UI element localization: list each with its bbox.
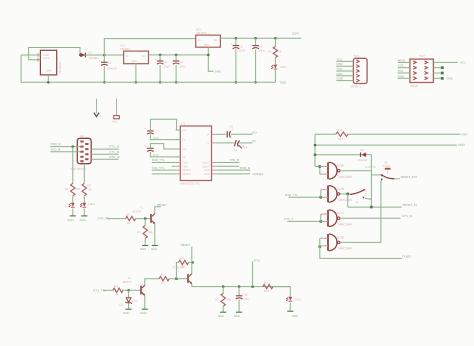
- wire to R4: [107, 218, 126, 220]
- svg-text:+: +: [231, 42, 233, 46]
- IC1 pin T1IN: [176, 162, 181, 164]
- svg-text:GND: GND: [140, 247, 146, 251]
- svg-text:CTS_IN: CTS_IN: [402, 214, 412, 218]
- wire T2 collector: [145, 279, 159, 286]
- svg-text:GND: GND: [67, 218, 73, 222]
- wire SV2 left pin 1: [398, 61, 410, 63]
- junction gate2 input: [320, 196, 323, 199]
- svg-text:R9: R9: [215, 298, 219, 302]
- wire SV2 right stub 2: [433, 67, 441, 69]
- wire LED1 to rail end: [274, 70, 276, 82]
- wire gate4 input down right: [320, 247, 402, 259]
- wire C6 to VS+ label: [231, 133, 253, 135]
- svg-text:R1OUT: R1OUT: [182, 169, 191, 172]
- wire LED4 to gnd: [289, 303, 291, 311]
- wire R2OUT: [152, 173, 176, 175]
- svg-text:R7: R7: [161, 281, 165, 285]
- ground at D3: [126, 308, 132, 310]
- junction C1 bottom: [103, 81, 106, 84]
- junction collector feedback: [191, 261, 194, 264]
- svg-text:RXD_M: RXD_M: [51, 142, 62, 146]
- svg-text:GND@1: GND@1: [252, 172, 263, 176]
- wire TXD_M to X2: [50, 151, 80, 153]
- svg-text:MA05-1: MA05-1: [350, 85, 361, 89]
- svg-text:RESET: RESET: [181, 243, 191, 247]
- wire V- out: [216, 142, 234, 144]
- wire C5 bottom to C2-: [150, 152, 180, 157]
- IC1 pin T1OUT: [212, 162, 217, 164]
- svg-text:VCC: VCC: [460, 61, 466, 65]
- node junction at C1: [103, 54, 106, 57]
- wire R6 to base: [123, 289, 140, 291]
- wire V+ out: [216, 133, 226, 135]
- SV2 left chevron 1: [413, 61, 416, 64]
- wire SV1 pin 5: [336, 80, 353, 82]
- svg-text:C7: C7: [234, 148, 238, 152]
- IC1 pin R2OUT: [176, 173, 181, 175]
- wire T1OUT: [216, 162, 239, 164]
- wire R9 to gnd: [222, 306, 224, 312]
- resistor R7: [159, 277, 169, 281]
- svg-text:D2: D2: [360, 148, 364, 152]
- svg-text:TXD_M: TXD_M: [51, 147, 61, 151]
- X2 pins left column: [80, 141, 83, 143]
- wire X2 DTR right: [91, 158, 118, 160]
- junction S1 pivot: [346, 193, 349, 196]
- svg-text:4k7: 4k7: [338, 137, 343, 141]
- svg-text:GND: GND: [123, 311, 129, 315]
- junction rail D2: [314, 153, 317, 156]
- svg-text:1N4004: 1N4004: [88, 56, 99, 60]
- transistor T3: [187, 274, 189, 283]
- svg-text:GND: GND: [151, 247, 157, 251]
- svg-text:T2OUT: T2OUT: [201, 165, 210, 168]
- zener diode D3: [126, 298, 131, 303]
- wire SV1 pin 4: [336, 75, 353, 77]
- node junction C2 top: [159, 54, 162, 57]
- wire feedback riser: [176, 262, 178, 278]
- svg-text:GND: GND: [46, 70, 52, 73]
- wire R1IN: [216, 169, 250, 171]
- resistor R3: [82, 183, 86, 195]
- SV1 pin 2 chevron: [356, 65, 359, 68]
- wire T1IN: [152, 162, 176, 164]
- RS232 driver IC1: [180, 126, 211, 181]
- ground at T2: [142, 308, 148, 310]
- tap square 4: [441, 77, 444, 80]
- wire RXD_M to X2: [50, 146, 80, 148]
- svg-text:R1: R1: [268, 49, 272, 53]
- svg-text:R4: R4: [127, 221, 131, 225]
- wire to R6: [103, 289, 113, 291]
- SV2 left chevron 3: [413, 72, 416, 75]
- wire to IC3 input: [104, 54, 123, 56]
- SV2 left chevron 4: [413, 77, 416, 80]
- wire SV1 pin 1: [336, 60, 353, 62]
- SV2 right chevron 4: [425, 77, 428, 80]
- svg-text:VI: VI: [126, 55, 129, 58]
- svg-text:+: +: [145, 126, 147, 130]
- switch S2: [385, 168, 391, 170]
- svg-text:10k: 10k: [148, 230, 153, 234]
- pin header SV1: [353, 58, 367, 83]
- wire IC4 output rail: [220, 37, 301, 39]
- wire S2 to net label: [394, 178, 400, 180]
- wire SV2 left pin 2: [398, 67, 410, 69]
- wire T1 collector: [155, 207, 161, 214]
- node junction R1 top: [274, 37, 277, 40]
- IC1 pin V+: [212, 133, 217, 135]
- test pad TP2: [116, 99, 118, 116]
- svg-text:RTS_M: RTS_M: [109, 145, 119, 149]
- wire D1 to node: [85, 54, 104, 56]
- svg-text:SCK: SCK: [398, 64, 404, 68]
- junction C9 bottom: [254, 81, 257, 84]
- capacitor C6 series: [226, 131, 228, 137]
- capacitor C4: [147, 130, 154, 132]
- svg-text:SV2: SV2: [419, 54, 425, 58]
- svg-text:1N4148: 1N4148: [357, 158, 367, 162]
- wire gate4 input tie: [319, 238, 321, 246]
- wire LED3 to gnd: [83, 209, 85, 216]
- svg-text:R2: R2: [65, 187, 69, 191]
- svg-text:RXD_M: RXD_M: [240, 166, 251, 170]
- wire T3 collector up: [191, 247, 193, 274]
- wire to D3: [128, 290, 130, 297]
- wire RTS riser: [252, 261, 254, 286]
- svg-text:CTS_M: CTS_M: [109, 150, 119, 154]
- transistor T1: [150, 214, 152, 223]
- resistor R2: [71, 183, 75, 195]
- input rail vertical: [314, 134, 316, 166]
- capacitor C8: [235, 38, 237, 45]
- svg-text:+: +: [155, 57, 157, 61]
- svg-text:GND: GND: [80, 218, 86, 222]
- wire SV1 pin 3: [336, 70, 353, 72]
- svg-text:RST: RST: [398, 69, 404, 73]
- svg-text:+: +: [99, 59, 101, 63]
- wire S1 contact: [365, 197, 372, 200]
- IC1 pin R1IN: [212, 169, 217, 171]
- tap square 3: [441, 72, 444, 75]
- junction rail DSR: [314, 144, 317, 147]
- wire R10 to LED4: [273, 287, 290, 297]
- wire gate2 output: [340, 193, 350, 195]
- wire gate3 output: [340, 217, 401, 219]
- svg-text:GND: GND: [234, 314, 240, 318]
- svg-text:4k7: 4k7: [114, 284, 119, 288]
- X2 pins right column: [85, 143, 88, 145]
- wire T1 emitter: [154, 224, 156, 246]
- SV1 pin 4 chevron: [356, 74, 359, 77]
- svg-text:GND: GND: [337, 77, 343, 81]
- svg-text:C1-: C1-: [182, 139, 186, 142]
- ground at T1: [152, 245, 158, 247]
- svg-text:GND: GND: [446, 77, 452, 81]
- wire gate1 output: [340, 170, 371, 172]
- svg-text:C1+: C1+: [182, 129, 187, 132]
- wire lower pin jog: [29, 48, 80, 60]
- junction gate4 input: [319, 245, 322, 248]
- IC1 pin C2+: [176, 148, 181, 150]
- ground at LED2: [70, 215, 76, 217]
- svg-text:VS+: VS+: [252, 131, 258, 135]
- IC1 pin C1-: [176, 139, 181, 141]
- svg-text:T3 BC547: T3 BC547: [172, 265, 185, 269]
- wire R8 to collector line: [189, 261, 193, 263]
- svg-text:VCC: VCC: [337, 57, 343, 61]
- svg-text:LED1: LED1: [280, 65, 288, 69]
- ground at R5: [142, 245, 148, 247]
- svg-text:GND: GND: [215, 70, 221, 74]
- IC1 pin V-: [212, 142, 217, 144]
- svg-text:IC2C: IC2C: [337, 211, 345, 215]
- wire down to R2: [72, 147, 74, 184]
- svg-text:RESET: RESET: [157, 203, 167, 207]
- svg-text:10uF: 10uF: [163, 65, 170, 69]
- resistor R8: [179, 260, 189, 264]
- wire X2 CTS right: [91, 153, 118, 155]
- wire DSR row: [315, 144, 457, 146]
- svg-text:C3: C3: [179, 60, 183, 64]
- transistor T2: [140, 286, 142, 295]
- junction RTS riser: [251, 285, 254, 288]
- X1 pin marks: [36, 53, 40, 62]
- svg-text:GND: GND: [280, 81, 286, 85]
- svg-text:T1OUT: T1OUT: [201, 162, 210, 165]
- IC1 pin R2IN: [212, 173, 217, 175]
- svg-text:74HC08N: 74HC08N: [337, 222, 352, 226]
- svg-text:RXD_TTL: RXD_TTL: [285, 193, 298, 197]
- wire IC4 input riser: [104, 39, 195, 55]
- svg-text:R6: R6: [115, 293, 119, 297]
- svg-text:V-: V-: [207, 142, 210, 145]
- svg-text:74HC08N: 74HC08N: [337, 247, 352, 251]
- svg-text:DTS61: DTS61: [383, 165, 391, 168]
- junction X1 gnd: [47, 75, 49, 82]
- tap square 2: [441, 66, 444, 69]
- wire R2IN: [216, 173, 250, 175]
- diode D2: [360, 152, 362, 157]
- svg-text:C2-: C2-: [182, 156, 186, 159]
- IC1 pin T2OUT: [212, 165, 217, 167]
- IC1 pin R1OUT: [176, 169, 181, 171]
- test pad TP1: [96, 99, 98, 114]
- wire SV2 left pin 4: [398, 77, 410, 79]
- IC1 pin T2IN: [176, 165, 181, 167]
- node junction C3 top: [175, 54, 178, 57]
- capacitor C2: [159, 55, 161, 61]
- svg-text:CTS_T: CTS_T: [284, 217, 293, 221]
- svg-text:MISO: MISO: [398, 58, 406, 62]
- svg-text:R5: R5: [137, 230, 141, 234]
- IC4 ground pin wire: [208, 47, 213, 71]
- wire SV2 right stub 3: [433, 72, 441, 74]
- wire SV2 left pin 3: [398, 72, 410, 74]
- junction IC3 gnd: [135, 81, 138, 84]
- wire gate3 input tie: [320, 214, 322, 221]
- svg-text:VO: VO: [214, 39, 218, 42]
- IC1 pin C1+: [176, 129, 181, 131]
- svg-text:4k7: 4k7: [160, 273, 165, 277]
- wire C4 top to C1+: [150, 119, 180, 131]
- wire S1 down: [347, 194, 349, 207]
- resistor R5: [143, 225, 147, 238]
- resistor R11: [336, 132, 348, 136]
- junction C3 bottom: [175, 81, 178, 84]
- svg-text:GND: GND: [218, 314, 224, 318]
- svg-text:1k5: 1k5: [87, 188, 92, 192]
- resistor R4: [126, 216, 136, 220]
- svg-text:1000uF: 1000uF: [107, 67, 117, 71]
- NAND gate IC2D: [327, 234, 329, 251]
- wire T2OUT: [216, 165, 239, 167]
- NAND gate IC2B: [327, 186, 329, 203]
- wire gate2 input tie: [320, 190, 322, 198]
- svg-text:R11: R11: [337, 128, 342, 132]
- svg-text:R2IN: R2IN: [204, 173, 210, 176]
- svg-text:RXD_TTL: RXD_TTL: [152, 158, 165, 162]
- svg-text:IC1: IC1: [181, 122, 186, 126]
- svg-text:VO: VO: [142, 55, 146, 58]
- svg-text:BC547: BC547: [123, 280, 132, 284]
- svg-text:GND: GND: [204, 44, 210, 47]
- wire gate1 inputs: [320, 166, 322, 168]
- svg-text:TXLED: TXLED: [402, 254, 411, 258]
- svg-text:PAD: PAD: [112, 121, 117, 124]
- svg-text:4k7: 4k7: [126, 212, 131, 216]
- svg-text:VS-: VS-: [252, 139, 257, 143]
- pin header SV2: [410, 59, 434, 82]
- svg-text:10uF: 10uF: [241, 145, 248, 149]
- wire C4 bottom to C1-: [150, 134, 180, 139]
- IC3 ground pin wire: [135, 64, 137, 83]
- svg-text:C2: C2: [163, 60, 167, 64]
- junction gate1 input: [319, 165, 322, 168]
- resistor R1: [274, 38, 276, 46]
- resistor R6: [113, 288, 123, 292]
- svg-text:JACK: JACK: [43, 57, 50, 60]
- svg-text:DSR: DSR: [458, 143, 465, 147]
- DB9 connector X2: [77, 138, 91, 163]
- junction IC4 gnd on rail: [207, 54, 210, 57]
- SV1 pin 3 chevron: [356, 70, 359, 73]
- svg-text:TXD_TTL: TXD_TTL: [152, 166, 165, 170]
- svg-text:4k7: 4k7: [264, 280, 269, 284]
- SV1 pin 1 chevron: [356, 60, 359, 63]
- svg-text:5V1: 5V1: [132, 299, 137, 303]
- wire R5 to gnd: [144, 238, 146, 245]
- wire D2 to riser: [366, 154, 371, 156]
- LED LED4: [288, 297, 292, 301]
- resistor R10: [263, 284, 273, 288]
- svg-text:VI: VI: [198, 39, 201, 42]
- svg-text:S1: S1: [355, 201, 359, 204]
- wire SV1 pin 2: [336, 65, 353, 67]
- SV2 left chevron 2: [413, 66, 416, 69]
- svg-text:GND: GND: [292, 314, 298, 318]
- svg-text:TXD: TXD: [337, 67, 343, 71]
- wire R7 to T3 base: [169, 278, 187, 280]
- svg-text:RTS: RTS: [254, 258, 260, 262]
- junction zener node: [127, 289, 130, 292]
- svg-text:T2IN: T2IN: [182, 165, 188, 168]
- wire rail jog to gate1: [315, 167, 320, 175]
- IC1 pin C2-: [176, 156, 181, 158]
- svg-text:BC547: BC547: [132, 209, 141, 213]
- svg-text:10uF: 10uF: [239, 48, 246, 52]
- svg-text:GND: GND: [140, 311, 146, 315]
- SV2 right chevron 2: [425, 66, 428, 69]
- ground at C10: [236, 311, 242, 313]
- node junction C8 top: [235, 37, 238, 40]
- svg-text:100n: 100n: [243, 297, 250, 301]
- diode D1: [79, 54, 81, 56]
- svg-text:GND: GND: [398, 74, 404, 78]
- voltage regulator IC4: [196, 35, 221, 47]
- wire down to R3: [83, 164, 85, 184]
- svg-text:C1: C1: [108, 61, 112, 65]
- wire reset row: [348, 206, 402, 208]
- svg-text:X2: X2: [80, 134, 84, 138]
- svg-text:GND: GND: [132, 60, 138, 63]
- svg-text:RXD: RXD: [337, 62, 343, 66]
- junction C2 bottom: [159, 81, 162, 84]
- voltage regulator IC3: [124, 51, 149, 64]
- svg-text:74HC08N: 74HC08N: [337, 198, 352, 202]
- wire to R5: [144, 219, 146, 226]
- ground at R9: [220, 311, 226, 313]
- switch S1: [350, 190, 365, 195]
- svg-text:TXD_M: TXD_M: [229, 158, 239, 162]
- wire gate3 input from CTS: [287, 220, 321, 222]
- svg-text:1k: 1k: [278, 49, 282, 53]
- svg-text:C2+: C2+: [182, 148, 187, 151]
- svg-text:1k5: 1k5: [76, 187, 81, 191]
- wire R4 to base: [136, 218, 151, 220]
- junction T3 base node: [175, 278, 177, 280]
- svg-text:R2OUT: R2OUT: [182, 173, 191, 176]
- svg-text:RESET_IN: RESET_IN: [403, 203, 417, 207]
- junction DB9 left: [72, 145, 75, 148]
- junction R9 top: [222, 285, 225, 288]
- SV2 right chevron 3: [425, 72, 428, 75]
- svg-text:R10: R10: [264, 289, 270, 293]
- wire SV2 right stub 4: [433, 77, 441, 79]
- svg-text:T1IN: T1IN: [182, 162, 188, 165]
- wire upper pin to left rail: [21, 54, 40, 56]
- svg-text:+12V: +12V: [291, 31, 299, 35]
- svg-text:L2: L2: [65, 204, 68, 207]
- svg-text:RESET_EXT: RESET_EXT: [401, 175, 418, 179]
- wire T3 emitter to rail: [192, 284, 290, 287]
- svg-text:R1IN: R1IN: [204, 169, 210, 172]
- svg-text:78L05Z: 78L05Z: [120, 47, 130, 51]
- svg-text:10k: 10k: [226, 298, 231, 302]
- wire +5V row with resistor R11: [315, 133, 336, 135]
- svg-text:ML10: ML10: [411, 84, 419, 88]
- riser wire D2/S2/S1: [370, 155, 372, 207]
- NAND gate IC2A: [327, 162, 329, 179]
- node junction C9 top: [254, 37, 257, 40]
- svg-text:D1: D1: [88, 51, 92, 55]
- LED LED3: [82, 203, 86, 207]
- wire C5 top to C2+: [150, 144, 180, 149]
- LED LED2: [71, 203, 75, 207]
- capacitor C5: [147, 147, 154, 149]
- S2 lower contact: [381, 179, 383, 181]
- capacitor C1: [103, 55, 105, 62]
